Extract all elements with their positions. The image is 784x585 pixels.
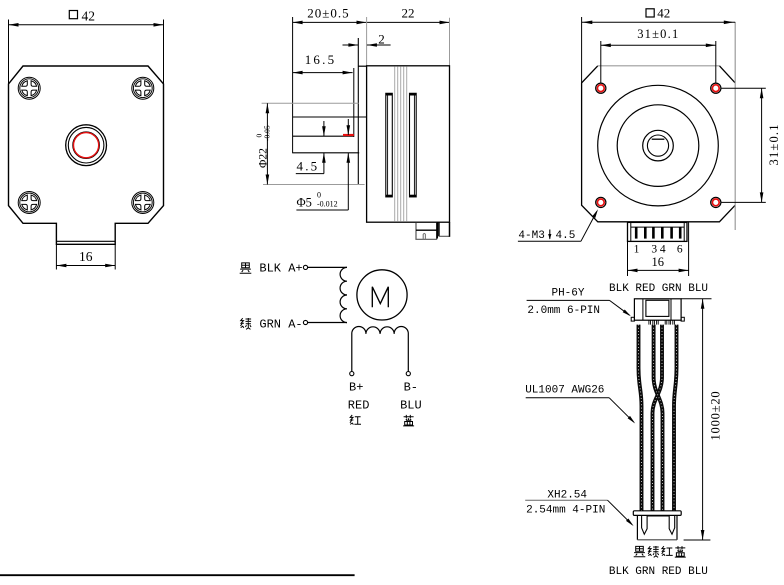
winding left top cap <box>386 93 393 95</box>
dimension 16 connector line <box>628 269 689 271</box>
label GRN A- chinese 绿 <box>241 318 252 329</box>
svg-text:RED: RED <box>348 399 370 413</box>
PH connector ear right <box>681 317 684 321</box>
svg-text:XH2.54: XH2.54 <box>547 489 587 501</box>
winding right inner line <box>413 93 415 197</box>
dimension 31±0.1 right arrow up <box>760 88 764 98</box>
svg-text:42: 42 <box>82 9 96 24</box>
bottom chinese label 黑绿红蓝 <box>634 546 686 557</box>
dimension 16 connector arrow right <box>679 269 689 273</box>
dimension 16.5 arrow left <box>293 71 303 75</box>
dimension 31±0.1 top arrow right <box>706 44 716 48</box>
dimension 4.5 lower arrow line <box>323 153 325 174</box>
dimension 16 extension line right <box>114 244 116 269</box>
boss lip top segment <box>358 65 366 67</box>
lamination line 1 <box>394 66 396 221</box>
dimension 31±0.1 right line <box>761 88 763 202</box>
dimension 4.5 arrow down <box>322 126 326 136</box>
shaft upper line <box>293 116 367 118</box>
svg-text:1000±20: 1000±20 <box>709 391 723 441</box>
center shaft circle black <box>73 132 100 159</box>
XH connector body right <box>676 515 678 539</box>
XH connector flange <box>633 511 681 516</box>
dimension 16 extension line left <box>55 244 57 269</box>
dimension □42 line <box>9 24 164 26</box>
dimension 1000±20 top extension <box>681 298 711 300</box>
dimension phi5 arrow up <box>347 153 351 163</box>
PH connector right wall <box>670 299 672 320</box>
svg-text:B+: B+ <box>349 381 363 395</box>
dimension 1000±20 arrow down <box>701 530 705 540</box>
motor connector inner top line <box>631 226 684 228</box>
dimension □42 right-view extension left <box>581 17 583 83</box>
pilot boss left edge / dim-2 extension <box>357 38 359 185</box>
label chinese 红 <box>350 415 361 425</box>
screw hole top-left <box>18 77 40 99</box>
center shaft circle red <box>74 133 99 158</box>
rear connector right edge <box>436 222 438 238</box>
svg-text:BLK GRN RED BLU: BLK GRN RED BLU <box>609 566 708 578</box>
terminal B+ <box>350 372 354 376</box>
label PH-6Y underline <box>527 299 610 301</box>
svg-text:31±0.1: 31±0.1 <box>637 27 679 41</box>
shaft circle <box>647 135 668 156</box>
svg-text:PH-6Y: PH-6Y <box>551 287 584 299</box>
motor connector housing <box>628 222 688 241</box>
mounting hole M3 top-left <box>596 83 606 93</box>
front connector seam line <box>56 240 115 242</box>
motor letter M <box>372 287 388 307</box>
dimension 16 connector extension right <box>688 222 690 276</box>
wire A- <box>308 322 347 324</box>
rear cap protrusion bottom <box>439 235 450 237</box>
svg-text:16: 16 <box>651 255 664 269</box>
dimension 31±0.1 right extension bottom <box>722 201 766 203</box>
dimension 2 arrow pointing right <box>348 43 358 47</box>
svg-text:Φ5: Φ5 <box>297 196 312 210</box>
shaft phi5 red line <box>343 134 354 136</box>
svg-text:-0.012: -0.012 <box>317 200 338 209</box>
wire A+ <box>308 266 347 268</box>
svg-text:BLK RED GRN BLU: BLK RED GRN BLU <box>609 283 708 295</box>
PH connector body <box>634 299 681 320</box>
svg-text:4.5: 4.5 <box>297 159 320 174</box>
dimension phi5 leader <box>296 209 348 211</box>
winding left bottom cap <box>386 195 393 197</box>
lamination line 2 <box>397 66 399 221</box>
dimension 31±0.1 top extension right <box>715 41 717 83</box>
dimension phi5 arrow down <box>347 125 351 135</box>
winding right top cap <box>410 93 417 95</box>
svg-text:4-M3: 4-M3 <box>518 230 544 242</box>
motor body outline <box>367 66 450 222</box>
terminal A+ <box>303 265 307 269</box>
center shaft boss circle outer <box>66 125 107 166</box>
XH connector body left <box>636 515 638 539</box>
screw hole bottom-left <box>18 192 40 214</box>
dimension 16.5 line <box>293 72 353 74</box>
dimension 16 arrow right <box>105 264 115 268</box>
shaft bottom line <box>292 152 359 154</box>
mounting hole M3 bottom-right <box>711 197 721 207</box>
dimension 20±0.5 arrow left <box>293 21 303 25</box>
dimension 31±0.1 top line <box>601 44 716 46</box>
dimension 2 left arrow line <box>343 44 359 46</box>
dimension □42 right-view arrow right <box>724 21 734 25</box>
mounting hole M3 top-right <box>711 83 721 93</box>
label 4-M3 depth arrow <box>549 230 551 239</box>
right view top edge gray <box>598 65 720 67</box>
svg-text:-0.05: -0.05 <box>263 125 272 141</box>
motor face extension line gray <box>366 17 368 66</box>
phi22 extension line top gray <box>262 102 359 104</box>
label UL1007 underline <box>526 397 609 399</box>
svg-text:2.54mm 4-PIN: 2.54mm 4-PIN <box>526 505 605 517</box>
label 4-M3 underline <box>518 240 581 242</box>
svg-text:22: 22 <box>402 6 415 21</box>
screw hole bottom-right <box>132 192 154 214</box>
dimension □42 extension line left <box>8 20 10 85</box>
lamination line 5 <box>406 66 408 221</box>
end bell circle large <box>598 85 719 206</box>
label XH2.54 leader arrow <box>626 519 634 527</box>
motor connector left wall <box>630 222 632 241</box>
dimension 20±0.5 arrow right <box>357 21 367 25</box>
wire black BLK <box>639 325 642 511</box>
dimension 4.5 arrow up <box>322 153 326 163</box>
right view outline <box>582 66 736 222</box>
wire red RED <box>654 325 663 511</box>
label UL1007 leader <box>609 398 634 423</box>
terminal A- <box>303 320 307 324</box>
svg-text:1: 1 <box>634 244 640 256</box>
dimension phi5 upper arrow line <box>347 119 349 135</box>
dimension 16 line <box>56 265 115 267</box>
svg-text:16: 16 <box>79 249 93 264</box>
shaft collar circle <box>643 130 674 161</box>
dimension 16.5 extension line <box>353 68 355 137</box>
dimension □42 arrow left <box>9 23 19 27</box>
XH connector body bottom <box>637 539 677 541</box>
svg-text:16.5: 16.5 <box>305 52 337 67</box>
dimension 22 arrow right <box>440 21 450 25</box>
right view right edge gray <box>734 22 736 230</box>
lamination line 3 <box>400 66 402 221</box>
coil A <box>340 267 347 322</box>
dimension 2 arrow pointing left <box>367 43 377 47</box>
dimension phi22 arrow up <box>266 103 270 113</box>
dimension 31±0.1 top extension left <box>600 41 602 83</box>
label XH2.54 leader <box>608 500 633 525</box>
wire blue BLU <box>674 325 677 511</box>
motor connector right wall <box>683 222 685 241</box>
label BLK A+ chinese 黑 <box>240 263 252 273</box>
rear cap protrusion left edge <box>438 222 440 236</box>
XH connector prong right <box>669 515 675 534</box>
label UL1007 leader arrow <box>628 416 636 424</box>
dimension 31±0.1 right arrow down <box>760 192 764 202</box>
svg-text:Φ22: Φ22 <box>258 148 270 168</box>
dimension phi22 line <box>266 103 268 184</box>
svg-text:BLK A+: BLK A+ <box>259 262 302 276</box>
dimension 1000±20 arrow up <box>701 299 705 309</box>
motor connector pin slots <box>635 227 638 239</box>
svg-text:GRN A-: GRN A- <box>259 317 302 331</box>
svg-text:4.5: 4.5 <box>556 230 576 242</box>
motor circle M <box>357 270 407 320</box>
winding rectangle right <box>410 93 417 197</box>
screw hole top-right <box>132 77 154 99</box>
phi22 extension line bottom gray <box>263 184 365 186</box>
dimension 1000±20 bottom extension <box>684 539 711 541</box>
svg-text:UL1007 AWG26: UL1007 AWG26 <box>525 384 604 396</box>
shaft end extension line <box>292 17 294 153</box>
dimension □42 arrow right <box>154 23 164 27</box>
border line bottom <box>0 574 355 576</box>
lamination line 4 <box>403 66 405 221</box>
dimension 2 right arrow line <box>367 44 391 46</box>
rear cap right edge <box>449 222 451 237</box>
pilot boss circle <box>617 105 699 187</box>
dimension 31±0.1 top arrow left <box>601 44 611 48</box>
label XH2.54 underline <box>525 499 607 501</box>
svg-text:31±0.1: 31±0.1 <box>767 123 781 165</box>
svg-text:0: 0 <box>317 191 321 200</box>
dimension □42 right-view arrow left <box>582 21 592 25</box>
label PH-6Y leader arrow <box>623 310 631 317</box>
svg-text:B-: B- <box>404 381 418 395</box>
dimension □42 extension line right <box>163 20 165 85</box>
svg-text:2.0mm 6-PIN: 2.0mm 6-PIN <box>527 305 600 317</box>
rear connector pin <box>423 233 425 239</box>
PH connector pins <box>648 320 650 324</box>
svg-text:4: 4 <box>660 244 666 256</box>
shaft flat line <box>293 135 354 137</box>
wire green GRN <box>653 325 663 511</box>
dimension □42 right-view square <box>646 9 654 17</box>
PH connector left wall <box>642 299 644 320</box>
front view outline (left view motor face) <box>9 66 164 244</box>
mounting hole M3 bottom-left <box>596 197 606 207</box>
dimension 16 connector extension left <box>627 241 629 276</box>
winding rectangle left <box>386 93 393 197</box>
label chinese 蓝 <box>403 415 414 426</box>
svg-text:2: 2 <box>378 32 385 47</box>
right view top-right chamfer <box>719 66 735 83</box>
rear extension line gray <box>449 18 451 84</box>
svg-text:3: 3 <box>651 244 657 256</box>
terminal B- <box>406 372 410 376</box>
winding left inner line <box>387 93 389 197</box>
dimension 22 line <box>367 21 450 23</box>
label PH-6Y leader <box>610 300 630 315</box>
dimension □42 square symbol <box>69 11 77 19</box>
coil B <box>352 326 409 371</box>
dimension 20±0.5 line <box>293 21 367 23</box>
dimension phi22 arrow down <box>266 175 270 185</box>
XH connector prong left <box>642 515 648 534</box>
XH connector window top <box>647 515 669 517</box>
center shaft boss circle inner <box>68 127 104 163</box>
dimension 16.5 arrow right <box>343 71 353 75</box>
PH connector ear left <box>631 317 634 321</box>
dimension 16 connector arrow left <box>628 269 638 273</box>
dimension 4.5 upper arrow line <box>323 121 325 136</box>
shaft flat chord <box>652 138 665 140</box>
dimension 16 arrow left <box>56 264 66 268</box>
dimension 31±0.1 right extension top <box>722 87 766 89</box>
rear connector divider <box>416 229 437 231</box>
svg-text:BLU: BLU <box>400 399 422 413</box>
dimension □42 right-view line <box>582 21 736 23</box>
winding right bottom cap <box>410 195 417 197</box>
dimension 1000±20 line <box>702 299 704 540</box>
rear connector block <box>416 223 437 240</box>
label 4-M3 leader <box>581 212 597 242</box>
dimension 4.5 leader <box>296 173 324 175</box>
dimension phi5 lower arrow line <box>347 153 349 210</box>
PH connector latch window <box>646 300 669 316</box>
label 4-M3 leader arrow <box>592 209 598 218</box>
svg-text:6: 6 <box>677 244 683 256</box>
svg-text:42: 42 <box>657 6 670 21</box>
svg-text:20±0.5: 20±0.5 <box>307 6 349 21</box>
